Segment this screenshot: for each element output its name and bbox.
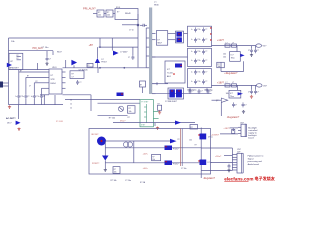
junction xyxy=(99,67,101,69)
pin 1 xyxy=(238,126,241,128)
rectifier box xyxy=(156,31,167,46)
svg-text:1u: 1u xyxy=(191,29,193,31)
svg-text:10k: 10k xyxy=(152,159,155,161)
svg-text:1n: 1n xyxy=(38,96,40,98)
svg-text:1u: 1u xyxy=(199,71,201,73)
svg-text:C?: C? xyxy=(128,57,130,59)
junction node A xyxy=(137,24,140,27)
svg-text:+12V?: +12V? xyxy=(217,39,225,42)
transistor Q3 xyxy=(118,106,123,111)
wire ladder 4 xyxy=(42,87,47,89)
connector CN3 xyxy=(241,124,245,136)
transistor Q5 xyxy=(200,134,207,140)
svg-text:Flyback power to: Flyback power to xyxy=(248,155,265,158)
capacitor C9b xyxy=(77,80,79,82)
wire xyxy=(152,83,168,85)
svg-text:C?: C? xyxy=(248,91,250,93)
svg-text:C?: C? xyxy=(79,82,81,84)
wire xyxy=(90,95,92,111)
svg-text:C?: C? xyxy=(205,29,207,31)
capacitor C18 xyxy=(206,88,208,90)
svg-text:C? 10n: C? 10n xyxy=(181,168,187,170)
svg-text:C?: C? xyxy=(204,90,206,92)
svg-text:R?: R? xyxy=(128,117,130,119)
wire xyxy=(65,60,67,68)
svg-text:C? 10n: C? 10n xyxy=(125,180,131,182)
svg-text:1k: 1k xyxy=(70,108,72,110)
op-amp U4 control xyxy=(165,61,185,83)
svg-text:LF?: LF? xyxy=(10,61,13,63)
svg-text:R?: R? xyxy=(195,145,197,147)
svg-text:+15V?: +15V? xyxy=(223,128,230,130)
capacitor C15 xyxy=(233,102,235,104)
transformer T1 core xyxy=(149,8,152,94)
svg-text:1u: 1u xyxy=(199,29,201,31)
resistor R17 snubber xyxy=(140,81,146,87)
svg-text:-Regulator?: -Regulator? xyxy=(203,177,216,180)
svg-text:10k: 10k xyxy=(11,41,15,43)
wire xyxy=(137,14,139,67)
ground primary xyxy=(9,105,11,106)
wire main bus right xyxy=(63,67,147,69)
resistor R13 xyxy=(190,125,198,130)
wire xyxy=(99,38,101,47)
svg-text:FR107: FR107 xyxy=(101,62,106,64)
wire xyxy=(97,68,99,73)
capacitor bank C xyxy=(188,69,212,88)
svg-text:R?: R? xyxy=(27,76,29,78)
capacitor C0 xyxy=(140,24,143,26)
svg-text:R?: R? xyxy=(114,169,116,171)
wire xyxy=(153,110,158,112)
wire xyxy=(231,148,233,171)
wire xyxy=(65,99,140,101)
transistor Q2 MOSFET xyxy=(71,60,77,66)
svg-text:+B?: +B? xyxy=(89,44,94,47)
wire xyxy=(104,161,106,169)
svg-text:1n: 1n xyxy=(31,96,33,98)
svg-text:C?: C? xyxy=(201,91,203,93)
ground Q1 xyxy=(18,128,20,129)
diode D3 xyxy=(113,51,119,56)
opto U7 xyxy=(165,161,173,166)
wire xyxy=(211,161,233,163)
svg-text:VCC?: VCC? xyxy=(120,121,126,123)
wire xyxy=(132,47,134,55)
svg-text:C?: C? xyxy=(72,76,74,78)
svg-text:R? 10k: R? 10k xyxy=(111,180,117,182)
svg-text:C?: C? xyxy=(29,86,31,88)
resistor R15 xyxy=(113,167,120,174)
svg-text:2SC?: 2SC? xyxy=(7,123,12,125)
svg-text:C?: C? xyxy=(257,91,259,93)
svg-text:C?: C? xyxy=(205,60,207,62)
wire xyxy=(201,170,232,172)
svg-text:+5Vs: +5Vs xyxy=(143,168,149,170)
wire second rail xyxy=(9,50,54,52)
svg-text:Backlight: Backlight xyxy=(248,126,257,129)
svg-text:STR: STR xyxy=(51,79,56,81)
svg-text:D?: D? xyxy=(157,40,159,42)
capacitor C8 xyxy=(132,55,134,57)
svg-text:K101: K101 xyxy=(116,7,120,9)
capacitor C16 xyxy=(242,102,244,104)
svg-text:backlight: backlight xyxy=(248,134,257,137)
resistor R12 xyxy=(158,105,162,110)
svg-text:1u: 1u xyxy=(191,39,193,41)
wire xyxy=(63,94,92,96)
wire drop 2 xyxy=(25,77,27,94)
diode D10 xyxy=(102,156,109,161)
svg-text:supply to: supply to xyxy=(248,132,257,135)
resistor R9 xyxy=(232,44,237,47)
pin 3 xyxy=(238,133,241,135)
wire top rail xyxy=(9,37,139,39)
resistor R101 xyxy=(97,10,104,17)
svg-text:R?: R? xyxy=(218,64,220,66)
wire xyxy=(220,62,222,71)
svg-text:STBY: STBY xyxy=(141,125,146,127)
svg-text:K?: K? xyxy=(117,12,119,14)
wire left vertical xyxy=(8,38,10,105)
svg-text:D? SBL2040?: D? SBL2040? xyxy=(165,101,177,103)
svg-text:+18V?: +18V? xyxy=(217,82,225,85)
wire xyxy=(152,56,188,58)
svg-text:10k: 10k xyxy=(218,66,221,68)
wire xyxy=(168,39,176,41)
polarity marks xyxy=(210,27,211,28)
svg-text:79xx: 79xx xyxy=(230,96,234,98)
svg-text:PC817: PC817 xyxy=(173,148,179,150)
wire xyxy=(122,24,138,26)
pin stubs U1 left xyxy=(47,71,50,73)
svg-text:C? 400V: C? 400V xyxy=(120,52,128,54)
svg-text:R? 10k: R? 10k xyxy=(109,118,115,120)
wire drop 4 xyxy=(41,88,43,94)
svg-text:1u: 1u xyxy=(199,51,201,53)
transistor Q4 xyxy=(221,98,228,102)
regulator U3 xyxy=(229,90,241,98)
svg-text:L?: L? xyxy=(232,82,234,84)
wire xyxy=(153,118,158,120)
wire xyxy=(220,102,222,116)
svg-text:+Regulator?: +Regulator? xyxy=(224,72,238,75)
svg-text:1k: 1k xyxy=(70,100,72,102)
svg-text:T? STBY: T? STBY xyxy=(141,101,149,103)
transistor Q1 xyxy=(16,121,21,125)
resistor R8 xyxy=(225,44,230,47)
wire xyxy=(232,128,234,129)
svg-text:-Regulator?: -Regulator? xyxy=(227,116,240,119)
wire xyxy=(243,61,245,71)
diode D4 dual xyxy=(176,31,184,43)
svg-text:CN?: CN? xyxy=(263,85,267,87)
svg-text:R?: R? xyxy=(36,81,38,83)
wire drop 1 xyxy=(18,69,20,94)
resistor R3 xyxy=(17,59,21,61)
wire xyxy=(113,122,195,124)
wire xyxy=(172,162,201,164)
resistor R5 xyxy=(128,106,136,114)
wire xyxy=(98,115,128,117)
wire xyxy=(18,105,20,119)
svg-text:AC-DET?: AC-DET? xyxy=(6,117,16,120)
svg-text:友: 友 xyxy=(270,175,275,181)
svg-text:1u: 1u xyxy=(199,81,201,83)
capacitor C6 xyxy=(41,94,43,96)
resistor R18 box xyxy=(217,62,225,67)
ground xyxy=(159,111,161,112)
capacitor C11 xyxy=(251,46,253,49)
svg-text:Audio board: Audio board xyxy=(248,163,260,166)
wire xyxy=(105,147,164,149)
svg-text:+15VS?: +15VS? xyxy=(211,134,220,136)
svg-text:C?: C? xyxy=(257,50,259,52)
svg-text:U?: U? xyxy=(51,75,54,77)
wire xyxy=(52,51,54,55)
relay K101 xyxy=(115,9,138,20)
wire xyxy=(212,99,222,101)
pin stubs U1 right xyxy=(62,71,66,73)
snubber box xyxy=(70,71,84,79)
svg-text:C?: C? xyxy=(205,81,207,83)
svg-text:processing and: processing and xyxy=(248,160,263,163)
diode D2 vertical xyxy=(95,58,100,63)
svg-text:10k: 10k xyxy=(223,54,226,56)
transistor Q7 xyxy=(123,142,128,147)
transformer primary ticks xyxy=(146,27,149,29)
svg-text:+5Vs: +5Vs xyxy=(143,154,149,156)
ground xyxy=(243,110,245,111)
ground xyxy=(157,127,159,128)
wire +12V rail xyxy=(212,45,257,47)
svg-text:R?: R? xyxy=(17,58,19,60)
pins CN4 xyxy=(232,154,237,156)
op-amp U1 PWM controller xyxy=(49,69,62,94)
svg-text:Signal: Signal xyxy=(248,158,254,160)
wire xyxy=(37,63,39,70)
wire xyxy=(156,83,159,85)
wire xyxy=(201,147,232,149)
wire xyxy=(154,123,156,126)
wire red vertical xyxy=(180,129,182,167)
capacitor bank B xyxy=(188,48,212,66)
svg-text:PRI_AUX?: PRI_AUX? xyxy=(83,7,96,11)
wire drop 3 xyxy=(33,83,35,94)
svg-text:1000u: 1000u xyxy=(192,90,197,92)
svg-text:1u: 1u xyxy=(191,51,193,53)
wire drops to bus xyxy=(18,99,20,105)
diode D8 dual xyxy=(168,88,184,99)
capacitor C20 xyxy=(228,164,230,166)
svg-text:470u: 470u xyxy=(209,90,213,92)
svg-text:10k: 10k xyxy=(98,15,101,17)
svg-text:U101: U101 xyxy=(52,67,57,69)
svg-text:C?: C? xyxy=(49,59,51,61)
svg-text:R? 4148: R? 4148 xyxy=(56,121,63,123)
wire AC live xyxy=(3,82,9,84)
wire blue vertical xyxy=(181,129,183,167)
svg-text:IC?: IC? xyxy=(167,69,171,71)
wire xyxy=(237,85,239,90)
wire xyxy=(168,32,176,34)
svg-text:RC10?: RC10? xyxy=(92,134,100,136)
wire xyxy=(111,38,113,51)
wire xyxy=(46,51,48,57)
svg-text:C?: C? xyxy=(205,51,207,53)
svg-text:IC?: IC? xyxy=(231,55,234,57)
svg-text:1u: 1u xyxy=(199,60,201,62)
svg-text:C?: C? xyxy=(205,71,207,73)
wire xyxy=(230,127,238,129)
svg-text:C?: C? xyxy=(235,104,237,106)
feedback block box xyxy=(89,129,211,175)
svg-text:Q?: Q? xyxy=(216,100,219,102)
svg-text:C?: C? xyxy=(248,50,250,52)
svg-text:10k: 10k xyxy=(223,57,226,59)
wire bottom bus xyxy=(9,104,64,106)
svg-text:1n: 1n xyxy=(15,96,17,98)
svg-text:elecfans.com: elecfans.com xyxy=(224,177,253,182)
transformer secondary ticks xyxy=(152,32,156,34)
svg-text:R?: R? xyxy=(178,139,180,141)
wire xyxy=(221,71,244,73)
svg-text:L?: L? xyxy=(232,42,234,44)
capacitor C14 xyxy=(255,85,257,89)
diode D5 xyxy=(240,54,244,57)
transistor Q6 xyxy=(200,160,207,166)
capacitor C5 xyxy=(33,94,35,96)
pin 2 xyxy=(238,129,241,131)
resistor R14 box xyxy=(152,154,161,160)
wire U1 bottom xyxy=(40,94,49,96)
wire AC neutral xyxy=(3,85,9,87)
svg-text:1n: 1n xyxy=(22,96,24,98)
svg-text:1k: 1k xyxy=(70,104,72,106)
diode D12 xyxy=(170,139,177,144)
svg-text:C? 10n: C? 10n xyxy=(41,47,49,49)
svg-text:+5Vs?: +5Vs? xyxy=(215,156,222,158)
ground xyxy=(251,95,253,96)
svg-text:PC817?: PC817? xyxy=(92,163,100,165)
diode D9 xyxy=(175,121,181,125)
svg-text:10k: 10k xyxy=(226,93,229,95)
svg-text:R?: R? xyxy=(88,65,90,67)
svg-text:R?: R? xyxy=(152,156,154,158)
capacitor C12 xyxy=(255,46,257,49)
wire xyxy=(98,102,141,104)
diode D7 xyxy=(175,64,182,68)
svg-text:C? 1n: C? 1n xyxy=(129,30,134,32)
svg-text:10k: 10k xyxy=(189,139,192,141)
diode D11 xyxy=(232,129,235,133)
svg-text:L?: L? xyxy=(226,42,228,44)
svg-text:1u: 1u xyxy=(191,81,193,83)
ground xyxy=(104,168,106,169)
svg-text:10k: 10k xyxy=(129,111,132,113)
svg-text:C?: C? xyxy=(187,90,189,92)
svg-text:L?: L? xyxy=(226,82,228,84)
diode D6 xyxy=(238,92,243,95)
svg-text:RELAY: RELAY xyxy=(125,12,132,15)
wire xyxy=(236,46,238,52)
diode D1 bridge xyxy=(7,63,12,67)
wire xyxy=(104,141,106,156)
wire xyxy=(224,155,232,157)
resistor R11 xyxy=(232,84,237,87)
EMI filter box xyxy=(9,53,23,69)
wire xyxy=(105,162,164,164)
wire xyxy=(93,13,97,15)
svg-text:VG?: VG? xyxy=(263,46,267,48)
wire xyxy=(133,141,135,163)
svg-text:W01?: W01? xyxy=(57,51,62,53)
opto U6 xyxy=(165,146,173,151)
capacitor C2 xyxy=(46,57,48,59)
svg-text:F6654: F6654 xyxy=(51,83,56,85)
svg-text:10k: 10k xyxy=(114,172,117,174)
capacitor bank A xyxy=(188,26,212,46)
wire xyxy=(184,32,188,34)
capacitor C4 xyxy=(25,94,27,96)
wire +18V rail xyxy=(212,84,257,86)
svg-text:S? 2A: S? 2A xyxy=(140,181,146,184)
wire xyxy=(172,147,201,149)
wire ladder 1 xyxy=(19,71,47,73)
capacitor C19 blue circle xyxy=(97,137,106,146)
wire xyxy=(113,13,115,15)
svg-text:board: board xyxy=(248,137,254,140)
connector AC inlet xyxy=(0,82,3,88)
svg-text:D? xx: D? xx xyxy=(208,137,213,139)
wire primary side xyxy=(145,28,147,68)
resistor R2 xyxy=(17,56,21,58)
svg-text:R?: R? xyxy=(17,55,19,57)
connector CN4 xyxy=(237,153,242,173)
wire xyxy=(200,128,202,179)
wire main bus left xyxy=(9,69,50,71)
capacitor C17 xyxy=(189,88,191,90)
svg-text:C?: C? xyxy=(27,96,29,98)
svg-text:R?: R? xyxy=(129,108,131,110)
wire xyxy=(220,133,238,135)
capacitor C13 xyxy=(251,85,253,89)
capacitor C10 blue xyxy=(117,93,124,97)
svg-text:PC817: PC817 xyxy=(173,163,179,165)
svg-text:10k: 10k xyxy=(107,15,110,17)
svg-text:C?: C? xyxy=(43,96,45,98)
connector CN2 xyxy=(256,84,262,87)
wire xyxy=(152,93,212,95)
connector CN1 xyxy=(256,44,262,47)
capacitor bank D xyxy=(189,89,191,91)
svg-text:78xx: 78xx xyxy=(231,58,235,60)
resistor R4 on bus xyxy=(87,63,93,67)
capacitor C3 xyxy=(18,94,20,96)
svg-text:1u: 1u xyxy=(199,39,201,41)
wire xyxy=(106,140,170,142)
junction xyxy=(99,46,101,48)
svg-text:R?: R? xyxy=(158,104,160,106)
wire xyxy=(104,13,106,15)
svg-text:ADJ: ADJ xyxy=(167,75,171,78)
svg-text:C?: C? xyxy=(205,39,207,41)
svg-text:R?: R? xyxy=(72,73,74,75)
wire snubber rail xyxy=(99,46,138,48)
resistor R10 xyxy=(225,84,230,87)
svg-text:EE40: EE40 xyxy=(154,5,158,7)
svg-text:C?: C? xyxy=(245,104,247,106)
